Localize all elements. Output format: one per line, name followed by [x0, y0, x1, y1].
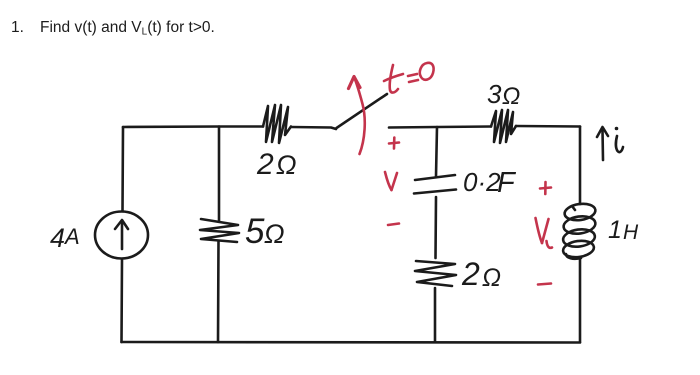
svg-text:Find v(t) and VL(t) for t>0.: Find v(t) and VL(t) for t>0.	[40, 19, 215, 38]
svg-text:0·2: 0·2	[463, 167, 501, 197]
svg-text:1: 1	[608, 216, 622, 244]
svg-text:Ω: Ω	[264, 219, 285, 249]
svg-text:Ω: Ω	[482, 264, 501, 292]
svg-text:1.: 1.	[11, 19, 24, 36]
svg-text:Ω: Ω	[502, 83, 520, 110]
svg-text:2: 2	[461, 256, 480, 292]
svg-text:Ω: Ω	[276, 150, 297, 180]
svg-text:2: 2	[256, 148, 274, 181]
svg-text:3: 3	[487, 79, 502, 109]
svg-text:F: F	[497, 167, 517, 199]
svg-text:A: A	[63, 224, 80, 249]
svg-text:5: 5	[245, 212, 265, 251]
svg-text:H: H	[623, 221, 639, 244]
svg-text:4: 4	[50, 223, 65, 253]
